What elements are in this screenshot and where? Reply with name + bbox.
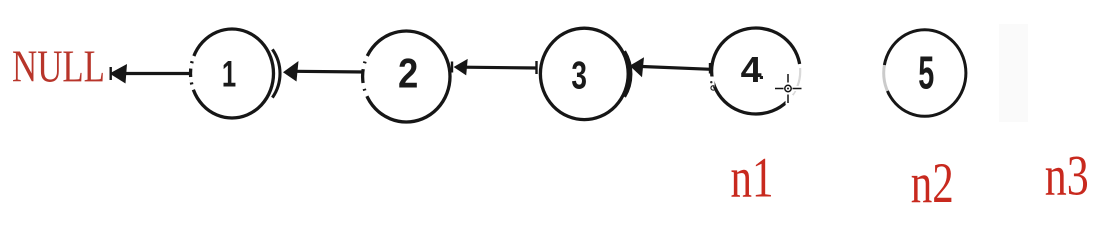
svg-text:1: 1 (222, 54, 236, 95)
svg-text:n1: n1 (731, 147, 774, 210)
svg-text:3: 3 (571, 54, 587, 97)
svg-text:4: 4 (741, 49, 762, 90)
svg-text:5: 5 (918, 47, 934, 99)
svg-text:2: 2 (398, 49, 418, 96)
svg-text:n2: n2 (911, 152, 954, 215)
svg-text:NULL: NULL (12, 42, 105, 92)
svg-text:n3: n3 (1045, 145, 1089, 208)
